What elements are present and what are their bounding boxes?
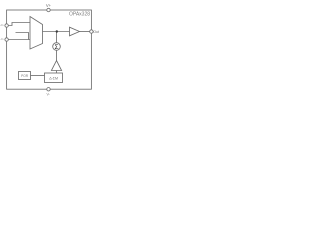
- svg-text:OPAx328: OPAx328: [69, 11, 90, 17]
- svg-text:Σ: Σ: [55, 44, 59, 51]
- terminal IN-: [5, 38, 8, 41]
- svg-text:Out: Out: [93, 30, 99, 34]
- svg-text:Δ-ΣM: Δ-ΣM: [49, 76, 58, 80]
- wire op-amp to OUT: [80, 31, 90, 33]
- wire IN- to input stage: [8, 39, 30, 41]
- op-amp U1 output triangle: [70, 27, 80, 36]
- svg-text:-In: -In: [0, 37, 4, 41]
- svg-text:+In: +In: [0, 23, 4, 27]
- buffer amp up triangle: [51, 61, 61, 71]
- device boundary box: [7, 10, 92, 89]
- terminal OUT: [90, 30, 93, 33]
- wire buffer to modulator: [56, 71, 58, 74]
- svg-text:V+: V+: [46, 3, 52, 8]
- wire junction down to sigma: [56, 32, 58, 43]
- POR block: [19, 72, 31, 80]
- terminal V-: [47, 88, 50, 91]
- terminal IN+: [5, 24, 8, 27]
- wire chopper upper branch: [16, 33, 29, 40]
- wire IN+ stub: [8, 23, 30, 26]
- delta-sigma modulator block: [45, 73, 63, 83]
- wire sigma down to buffer: [56, 50, 58, 60]
- node junction dot: [56, 30, 58, 32]
- terminal V+: [47, 8, 50, 11]
- svg-text:V-: V-: [46, 92, 50, 96]
- wire POR to modulator: [31, 75, 45, 77]
- summing node sigma: [53, 43, 61, 51]
- input mux trapezoid: [30, 17, 43, 50]
- wire mux output to op-amp: [43, 31, 70, 33]
- svg-text:POR: POR: [21, 74, 29, 78]
